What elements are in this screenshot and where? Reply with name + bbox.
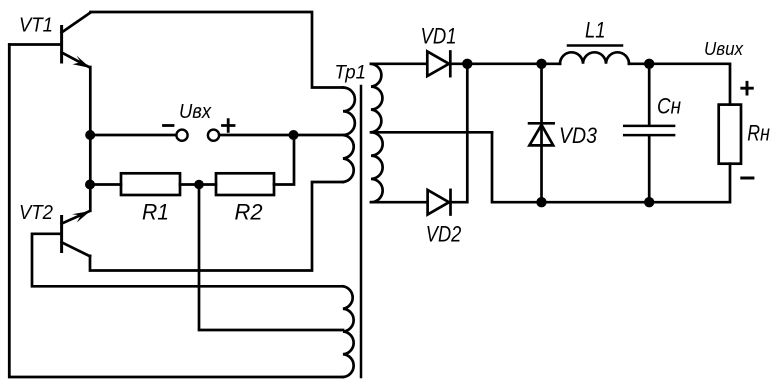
svg-text:Сн: Сн bbox=[657, 94, 681, 119]
node: R1 left junction bbox=[85, 180, 95, 190]
wire: R1/R2 junction to feedback winding center tap bbox=[199, 185, 343, 331]
svg-text:Rн: Rн bbox=[747, 120, 770, 145]
transformer Tp1 feedback winding bbox=[343, 286, 354, 377]
node: R1/R2 junction bbox=[194, 180, 204, 190]
wire: center tap junction down to R2 bbox=[274, 135, 294, 185]
label: minus (Uвх polarity) bbox=[164, 124, 174, 127]
svg-text:VD1: VD1 bbox=[421, 24, 457, 49]
node: center tap junction bbox=[289, 130, 299, 140]
diode VD2 bbox=[428, 190, 451, 215]
svg-text:VD3: VD3 bbox=[559, 123, 597, 148]
wire: top rail VT1 collector to Tp1 primary top bbox=[91, 12, 344, 88]
wire: VT2 base loop to feedback winding top bbox=[32, 234, 343, 286]
svg-text:VT1: VT1 bbox=[19, 15, 53, 37]
transistor VT2 bbox=[62, 211, 91, 256]
node: Сн bottom junction bbox=[644, 197, 654, 207]
label: minus (output polarity) bbox=[742, 177, 753, 180]
transformer Tp1 core bbox=[360, 86, 363, 377]
wire: secondary center tap drop to bottom rail bbox=[492, 132, 542, 202]
wire: secondary bottom lead to VD2 bbox=[371, 201, 427, 204]
wire: output bottom rail bbox=[542, 164, 731, 203]
terminal: Uвх plus bbox=[208, 130, 219, 141]
wire: VT2 collector to primary winding bottom bbox=[90, 182, 343, 271]
node: Сн top junction bbox=[644, 59, 654, 69]
wire: VD3 branch bbox=[540, 64, 543, 202]
wire: VD1 cathode to filter rail bbox=[450, 62, 560, 65]
wire: Uвх minus lead bbox=[90, 134, 176, 137]
wire: emitter rail to R1 bbox=[90, 183, 121, 186]
svg-text:Тр1: Тр1 bbox=[335, 62, 367, 84]
wire: VT1 base lead bbox=[9, 43, 60, 46]
wire: R1 to R2 link bbox=[180, 183, 216, 186]
diode VD1 bbox=[427, 52, 450, 77]
svg-text:VD2: VD2 bbox=[426, 221, 462, 246]
resistor R2 bbox=[216, 173, 274, 195]
capacitor Сн bbox=[624, 64, 674, 202]
label L1 underline bbox=[568, 44, 622, 47]
wire: VD2 cathode riser to top rail bbox=[451, 64, 468, 202]
wire: output top rail to Rн bbox=[629, 64, 730, 105]
resistor Rн bbox=[719, 105, 741, 164]
wire: secondary center tap lead bbox=[371, 131, 492, 134]
node: rectifier output junction bbox=[462, 59, 472, 69]
wire: left feedback rail (VT1 base around to feedback winding bottom) bbox=[9, 45, 343, 378]
wire: secondary top lead to VD1 bbox=[371, 62, 427, 65]
inductor L1 bbox=[560, 52, 629, 63]
diode VD3 bbox=[529, 123, 554, 145]
node: VD3 top junction bbox=[536, 59, 546, 69]
wire: primary center tap lead bbox=[294, 134, 344, 137]
svg-text:Uвх: Uвх bbox=[179, 100, 212, 123]
terminal: Uвх minus bbox=[176, 130, 187, 141]
svg-text:Uвих: Uвих bbox=[704, 38, 744, 59]
transformer Tp1 secondary winding bbox=[371, 64, 383, 202]
resistor R1 bbox=[121, 173, 180, 195]
svg-text:R1: R1 bbox=[142, 200, 169, 225]
wire: emitter rail VT1 to VT2 bbox=[89, 67, 92, 211]
label: plus (output polarity) bbox=[742, 82, 753, 94]
svg-text:R2: R2 bbox=[235, 200, 263, 225]
wire: Uвх plus lead bbox=[219, 134, 293, 137]
label: plus (Uвх polarity) bbox=[223, 120, 235, 132]
node: VD3 anode junction bbox=[536, 197, 546, 207]
transformer Tp1 primary winding bbox=[343, 88, 355, 183]
transistor VT1 bbox=[62, 13, 91, 69]
node: emitter rail / Uвх minus junction bbox=[85, 130, 95, 140]
svg-text:VT2: VT2 bbox=[19, 201, 54, 224]
svg-text:L1: L1 bbox=[585, 17, 606, 42]
